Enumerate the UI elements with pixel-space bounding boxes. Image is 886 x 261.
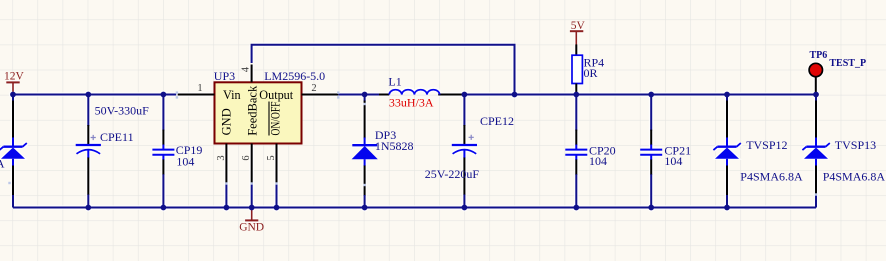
wire L1 right lead bbox=[438, 94, 464, 96]
svg-text:1N5828: 1N5828 bbox=[375, 139, 414, 153]
svg-text:FeedBack: FeedBack bbox=[246, 85, 260, 136]
svg-text:0R: 0R bbox=[584, 66, 598, 80]
svg-text:25V-220uF: 25V-220uF bbox=[425, 167, 480, 181]
wire feedback loop from pin 4 to output node bbox=[252, 45, 515, 95]
svg-text:GND: GND bbox=[239, 222, 264, 234]
svg-text:P4SMA6.8A: P4SMA6.8A bbox=[740, 169, 803, 183]
svg-text:TEST_P: TEST_P bbox=[829, 58, 866, 69]
pin 1 Vin wire bbox=[178, 94, 215, 96]
pin endpoint markers (faint) bbox=[8, 91, 817, 195]
capacitor CP21 bbox=[650, 96, 652, 131]
svg-text:104: 104 bbox=[176, 155, 194, 169]
diode TVSP11 (cut off at left edge) bbox=[12, 96, 14, 102]
svg-text:TVSP12: TVSP12 bbox=[746, 138, 787, 152]
junction dots on bottom bus bbox=[85, 205, 729, 211]
power port 12V bbox=[4, 71, 25, 92]
svg-text:1: 1 bbox=[197, 83, 202, 94]
wire bottom ground bus bbox=[13, 207, 816, 209]
svg-text:CPE12: CPE12 bbox=[480, 114, 514, 128]
capacitor CP20 bbox=[575, 96, 577, 131]
svg-text:6: 6 bbox=[241, 155, 252, 160]
svg-text:GND: GND bbox=[220, 108, 234, 135]
svg-text:3: 3 bbox=[216, 155, 227, 160]
svg-text:ON/OFF: ON/OFF bbox=[268, 101, 282, 135]
power port GND bbox=[239, 209, 264, 234]
capacitor CPE11 bbox=[87, 96, 89, 127]
pin 4 FeedBack wire bbox=[251, 65, 253, 83]
wire top bus from 12V node to pin 1 of U3 bbox=[13, 94, 176, 96]
wire L1 left lead bbox=[379, 94, 389, 96]
svg-text:33uH/3A: 33uH/3A bbox=[389, 95, 434, 109]
capacitor CPE12 bbox=[463, 96, 465, 127]
svg-text:L1: L1 bbox=[388, 75, 401, 89]
svg-text:12V: 12V bbox=[4, 71, 25, 83]
svg-text:Vin: Vin bbox=[223, 88, 241, 102]
svg-text:P4SMA6.8A: P4SMA6.8A bbox=[823, 169, 886, 183]
svg-text:TVSP13: TVSP13 bbox=[835, 138, 876, 152]
plus polarity mark of CPE11 bbox=[91, 135, 96, 140]
diode DP3 bbox=[364, 96, 366, 102]
svg-text:Output: Output bbox=[259, 88, 293, 102]
svg-text:2: 2 bbox=[311, 83, 316, 94]
svg-text:104: 104 bbox=[589, 154, 607, 168]
svg-text:A: A bbox=[0, 156, 5, 170]
pin 2 Output wire bbox=[302, 94, 339, 96]
op-amp U3 LM2596-5.0 regulator body bbox=[215, 82, 302, 143]
svg-text:UP3: UP3 bbox=[214, 69, 235, 83]
inductor L1 bbox=[389, 90, 439, 95]
pin 5 wire bbox=[276, 144, 278, 184]
capacitor CP19 bbox=[162, 96, 164, 131]
svg-text:104: 104 bbox=[664, 154, 682, 168]
junction dots on top bus bbox=[10, 92, 819, 98]
svg-text:TP6: TP6 bbox=[810, 50, 828, 61]
plus polarity mark of CPE12 bbox=[469, 135, 474, 140]
resistor RP4 bbox=[575, 44, 577, 55]
diode TVSP13 bbox=[815, 96, 817, 102]
pin 6 wire bbox=[251, 144, 253, 184]
pin 3 wire bbox=[225, 144, 227, 184]
wire top bus from pin 2 node to TP6 node bbox=[338, 94, 379, 96]
svg-text:5: 5 bbox=[266, 155, 277, 160]
diode TVSP12 bbox=[726, 96, 728, 102]
svg-text:4: 4 bbox=[240, 66, 251, 72]
test point TP6 bbox=[809, 63, 822, 94]
svg-text:50V-330uF: 50V-330uF bbox=[95, 103, 150, 117]
power port 5V bbox=[570, 20, 586, 44]
svg-text:LM2596-5.0: LM2596-5.0 bbox=[264, 69, 325, 83]
svg-text:CPE11: CPE11 bbox=[100, 130, 134, 144]
